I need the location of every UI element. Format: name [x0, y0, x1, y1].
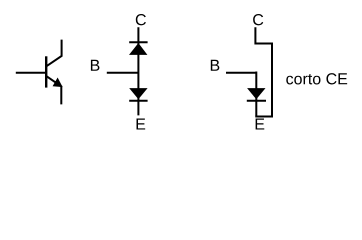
wire: base lead — [226, 72, 256, 74]
diode D1 base-collector: cathode bar — [129, 41, 147, 43]
wire: collector lead — [47, 40, 62, 67]
base bar — [45, 56, 47, 87]
node C (diode model) — [136, 14, 146, 25]
emitter arrow — [53, 79, 61, 87]
wire: emitter lead — [47, 76, 62, 104]
diode D3 base-emitter: triangle — [247, 88, 265, 99]
transistor (NPN symbol) — [16, 40, 62, 105]
node C (shorted CE model) — [253, 14, 263, 25]
diode D1 base-collector: triangle — [129, 43, 147, 55]
wire: collector stub to short — [255, 27, 272, 116]
diode D2 base-emitter: cathode bar — [129, 100, 147, 102]
wire: CE short jumper — [255, 116, 273, 118]
wire: C-to-E rail — [137, 27, 139, 115]
node B (shorted CE model) — [211, 60, 220, 71]
wire: emitter rail — [255, 72, 257, 117]
diode D2 base-emitter: triangle — [129, 88, 147, 99]
node B (diode model) — [91, 60, 100, 71]
node E (shorted CE model) — [256, 119, 265, 130]
wire: base lead — [16, 72, 46, 74]
node E (diode model) — [137, 119, 146, 130]
wire: base lead — [107, 72, 139, 74]
diode D3 base-emitter: cathode bar — [247, 100, 266, 102]
label: corto CE — [286, 76, 293, 85]
